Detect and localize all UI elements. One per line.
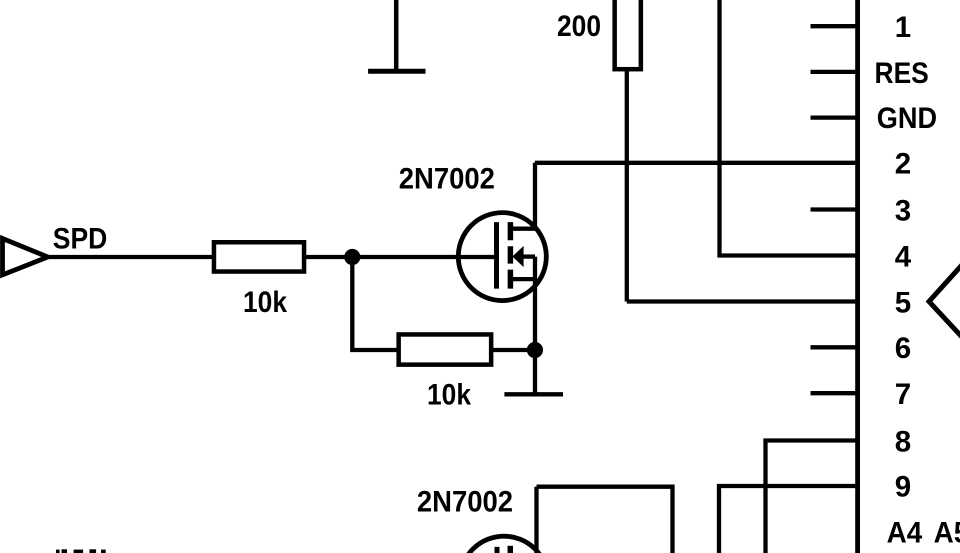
wire to pin 8 (corner down) bbox=[766, 441, 858, 553]
svg-text:RES: RES bbox=[875, 57, 929, 90]
wire R1 to Q1 gate bbox=[304, 255, 497, 259]
label of bottom input (clipped letter tops) bbox=[56, 549, 106, 553]
wire to pin 2 (horizontal from Q1 drain) bbox=[535, 161, 858, 165]
transistor Q2 2N7002 (N-MOSFET, partially visible) bbox=[460, 487, 548, 553]
svg-text:4: 4 bbox=[895, 240, 912, 273]
wire Q2 drain (corner down) bbox=[537, 487, 673, 553]
pin 7 stub bbox=[811, 391, 858, 395]
svg-text:10k: 10k bbox=[243, 286, 288, 319]
svg-text:1: 1 bbox=[895, 11, 911, 44]
wire to pin 4 (vertical from top, corner right) bbox=[720, 0, 858, 256]
svg-text:3: 3 bbox=[895, 194, 911, 227]
wire SPD to resistor R1 bbox=[48, 255, 214, 259]
svg-text:8: 8 bbox=[895, 425, 911, 458]
ground symbol (below Q1 source) bbox=[504, 392, 563, 396]
pin 1 stub bbox=[811, 24, 858, 28]
svg-text:10k: 10k bbox=[427, 378, 472, 411]
resistor R1 10k (horizontal) bbox=[214, 242, 304, 271]
transistor Q1 2N7002 (N-MOSFET) bbox=[458, 163, 546, 394]
svg-text:200: 200 bbox=[557, 10, 601, 43]
pin RES stub bbox=[811, 70, 858, 74]
svg-text:2: 2 bbox=[895, 148, 911, 181]
connector left edge bbox=[855, 0, 860, 553]
ground symbol (top left) bbox=[368, 0, 425, 71]
svg-text:A4: A4 bbox=[887, 517, 923, 550]
svg-text:2N7002: 2N7002 bbox=[417, 486, 513, 519]
resistor R2 10k (horizontal) bbox=[399, 334, 492, 364]
svg-text:5: 5 bbox=[895, 286, 911, 319]
wire to pin 5 (horizontal) bbox=[627, 299, 858, 303]
resistor 200 (vertical, top) bbox=[615, 0, 641, 69]
svg-text:6: 6 bbox=[895, 332, 911, 365]
svg-text:A5: A5 bbox=[934, 517, 960, 550]
junction node (source / R2 / ground) bbox=[527, 342, 543, 358]
svg-text:7: 7 bbox=[895, 378, 911, 411]
wire from 200 resistor down to pin 5 row bbox=[625, 69, 629, 301]
wire R2 to source junction bbox=[491, 348, 535, 352]
wire junction down to R2 bbox=[352, 257, 398, 350]
svg-text:9: 9 bbox=[895, 470, 911, 503]
diamond connector marker at pin 5 bbox=[929, 264, 960, 338]
pin 3 stub bbox=[811, 207, 858, 211]
svg-text:SPD: SPD bbox=[53, 223, 108, 256]
pin 6 stub bbox=[811, 345, 858, 349]
pin GND stub bbox=[811, 115, 858, 119]
svg-text:2N7002: 2N7002 bbox=[399, 163, 495, 196]
input port SPD (triangle) bbox=[3, 239, 48, 275]
junction node (gate / R2 tap) bbox=[344, 249, 360, 265]
svg-text:GND: GND bbox=[877, 102, 937, 135]
wire to pin 9 (corner down) bbox=[719, 486, 858, 553]
